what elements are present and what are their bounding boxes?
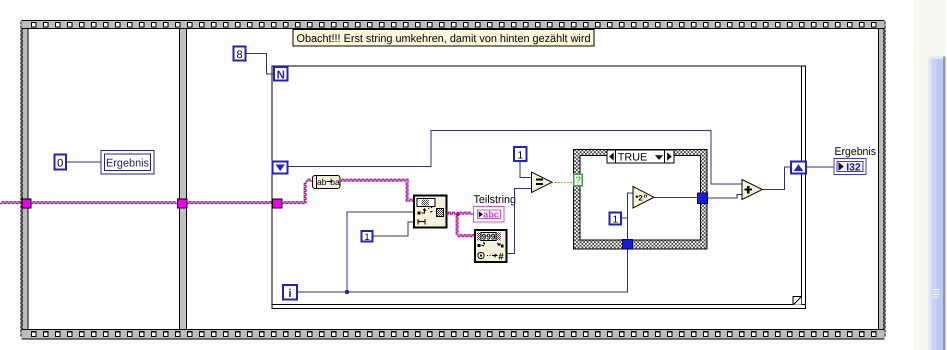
wire: string input from left edge — [0, 202, 22, 204]
tunnel: for loop left border (string) — [273, 199, 283, 208]
svg-text:*2: *2 — [635, 194, 643, 203]
junction on i wire — [345, 290, 350, 295]
shift register right terminal — [791, 162, 806, 174]
svg-text:i: i — [288, 288, 291, 300]
wire: 1 to equals top input — [520, 161, 532, 178]
svg-text:?: ? — [576, 175, 581, 185]
svg-text:1: 1 — [613, 214, 619, 225]
numeric constant 1 (length) — [362, 231, 373, 243]
for loop border — [272, 66, 805, 308]
wire: 8 to N — [246, 54, 274, 75]
svg-text:Obacht!!! Erst string umkehren: Obacht!!! Erst string umkehren, damit vo… — [297, 33, 591, 45]
scrollbar grip — [933, 289, 940, 298]
shift register left terminal — [273, 162, 288, 174]
svg-text:TRUE: TRUE — [618, 151, 647, 163]
reverse string node ab->ba — [313, 176, 341, 189]
function: string subset — [414, 196, 447, 228]
case structure border — [574, 150, 708, 250]
case selector label TRUE — [607, 150, 674, 163]
pane gutter strip — [913, 0, 927, 350]
wire: junction to Teilstring indicator — [458, 212, 474, 214]
for loop resize corner notch — [793, 297, 801, 305]
wire: add node to shift register right — [763, 167, 791, 190]
wire: i terminal to case bottom tunnel — [297, 248, 628, 292]
wire: 0 constant to Ergebnis local — [66, 161, 101, 163]
svg-text:abc: abc — [483, 210, 499, 220]
wire: 1 to string subset length input — [373, 222, 415, 236]
comment label Obacht — [293, 30, 594, 47]
sequence frame divider — [179, 29, 187, 329]
numeric constant 1 (compare) — [514, 147, 527, 162]
wire: case bottom tunnel up to scale-by-2^n — [628, 193, 634, 240]
indicator Ergebnis I32 — [834, 159, 866, 175]
svg-text:999: 999 — [482, 232, 496, 242]
wire: reverse string to string subset — [340, 179, 408, 181]
function: equal? — [532, 172, 553, 193]
iteration terminal i — [283, 285, 297, 300]
function: add — [742, 180, 763, 200]
svg-text:0: 0 — [57, 158, 63, 170]
wire: boolean dotted to case selector — [552, 181, 574, 183]
numeric constant 1 (case) — [610, 213, 622, 226]
svg-text:ba: ba — [330, 177, 340, 187]
svg-text:N: N — [277, 69, 285, 81]
local variable Ergebnis (write) — [101, 151, 154, 175]
function: decimal string to number (999) — [475, 230, 507, 262]
scrollbar track — [927, 0, 946, 350]
wire: string-to-number output to equals — [507, 189, 532, 254]
svg-text:1: 1 — [517, 150, 523, 162]
svg-text:I32: I32 — [846, 162, 861, 173]
svg-text:ab: ab — [317, 177, 327, 187]
function: scale by power of 2 — [633, 187, 654, 209]
wire: i branch to string subset offset input — [347, 212, 414, 292]
numeric constant 0 — [55, 155, 67, 170]
tunnel: case bottom (i input) — [623, 240, 633, 249]
numeric constant 8 — [234, 47, 246, 62]
wire: shift register right to Ergebnis indicator — [806, 166, 834, 168]
wire: loop tunnel to reverse string — [282, 202, 306, 204]
svg-text:Ergebnis: Ergebnis — [835, 146, 877, 158]
wire: 1 to scale node — [621, 217, 628, 219]
wire: subset output to junction — [447, 212, 458, 214]
svg-text:8: 8 — [237, 49, 243, 61]
indicator Teilstring (string abc) — [474, 207, 505, 223]
scrollbar thumb — [929, 57, 946, 350]
svg-text:Teilstring: Teilstring — [474, 194, 517, 206]
tunnel: sequence left border (string) — [22, 199, 31, 208]
tunnel: case right (result out) — [698, 193, 708, 204]
case selector tunnel ? — [574, 174, 583, 186]
svg-text:1: 1 — [364, 232, 369, 243]
svg-text:#: # — [498, 251, 504, 262]
loop count terminal N — [274, 67, 288, 81]
junction on string wire — [456, 212, 460, 216]
tunnel: frame divider (string) — [178, 199, 188, 208]
wire: shift register left to add node (top path) — [288, 131, 742, 185]
wire: junction down to decimal-string-to-number — [456, 214, 458, 237]
svg-text:Ergebnis: Ergebnis — [106, 158, 149, 170]
wire: case tunnel to add node — [708, 195, 743, 199]
wire: scale output to case right tunnel — [654, 197, 698, 199]
